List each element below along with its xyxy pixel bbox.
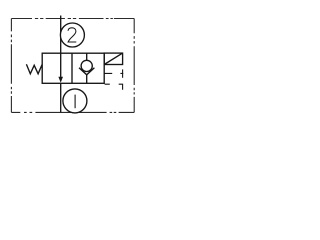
envelope right edge [133, 19, 135, 113]
flow arrow (left position) [60, 53, 62, 77]
envelope left edge [10, 19, 12, 113]
check valve stem top [86, 53, 88, 60]
pilot dashed line upper [104, 72, 123, 74]
wire body to port1 [60, 83, 62, 112]
spring W [26, 64, 42, 74]
pilot dashed line vertical [122, 69, 124, 77]
pilot dashed line lower with corner [105, 84, 123, 90]
port 2 circle [60, 23, 84, 47]
wire port2 to body [60, 16, 62, 54]
solenoid diagonal [104, 53, 122, 64]
envelope top edge (phantom dash-dot-dot) [11, 18, 134, 20]
position divider [71, 53, 73, 83]
digit 1 [74, 95, 76, 109]
envelope bottom edge [11, 111, 134, 113]
valve body (two position boxes) [42, 53, 104, 83]
digit 2 [68, 28, 76, 42]
check valve stem bottom [86, 75, 88, 84]
port 1 circle [63, 89, 87, 113]
check valve seat [79, 68, 94, 75]
solenoid box [104, 53, 122, 64]
check valve ball [81, 60, 92, 71]
